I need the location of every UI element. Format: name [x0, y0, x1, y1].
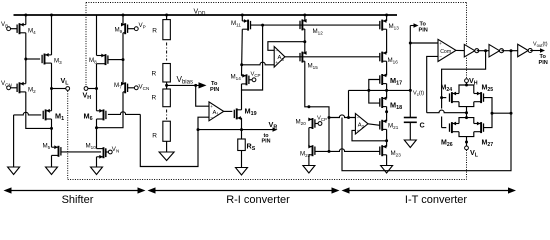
resistor RS — [238, 139, 246, 151]
resistor R (second) — [163, 64, 171, 83]
transistor M7 — [124, 82, 126, 93]
op-amp A2 — [355, 114, 368, 135]
input VB terminal — [7, 27, 11, 31]
section divider I-T span — [346, 190, 511, 192]
svg-text:+: + — [210, 104, 213, 109]
input VCN terminal right — [134, 86, 138, 90]
node Vbias tap — [165, 84, 168, 87]
node M25/M27 gate line joins — [491, 112, 494, 115]
transistor M3 — [44, 54, 46, 65]
node VR sense tap — [197, 128, 200, 131]
node M3 gate tap — [24, 58, 27, 61]
transistor M12 — [301, 19, 303, 30]
node A2 minus join — [347, 116, 350, 119]
Vc sense wire — [349, 89, 411, 91]
wire R2 to Vbias node — [166, 82, 168, 89]
wire M18 source to M21 — [386, 107, 388, 122]
Vth lower rail to M26/M27 drains — [459, 118, 474, 124]
bulk wire to VN terminal — [106, 151, 109, 153]
wire M3 gate — [26, 58, 40, 60]
wire Com output to inverter 1 — [456, 49, 464, 51]
comparator Com — [438, 39, 456, 61]
wire inverter1 to inverter2 — [477, 50, 489, 52]
wire M17 gate to Vc node — [369, 80, 380, 104]
svg-text:PIN: PIN — [262, 139, 271, 145]
inverter 2 — [489, 44, 500, 57]
wire Vbias to A1 plus input — [196, 85, 209, 106]
transistor M13 — [381, 20, 383, 31]
wire M1 source to M5 — [51, 119, 53, 147]
node M17 gate tie — [367, 89, 370, 92]
transistor M27 — [480, 122, 482, 133]
transistor M24 — [451, 92, 453, 103]
ground under M1 gate post — [8, 167, 20, 175]
svg-text:−: − — [210, 115, 213, 120]
input VCN terminal — [7, 86, 11, 90]
wire M5 source to ground — [51, 155, 53, 167]
terminal VL — [66, 87, 70, 91]
wire M2 source down and over to M5 drain — [26, 92, 52, 128]
svg-text:−: − — [275, 48, 278, 53]
wire M8 source to node VH and M6 — [96, 64, 98, 111]
node M24 gate tap — [440, 96, 443, 99]
svg-text:−: − — [357, 116, 360, 121]
node M20 drain corner — [307, 105, 310, 108]
wire M21 source to M23 — [386, 129, 388, 146]
svg-text:+: + — [439, 41, 442, 46]
wire Vc up to comparator plus — [409, 43, 411, 90]
transistor M16 — [381, 52, 383, 63]
terminal VCP of M20 — [318, 122, 322, 126]
arrow VR to pin — [242, 129, 274, 131]
svg-text:A1: A1 — [213, 110, 220, 117]
svg-text:A2: A2 — [358, 122, 365, 129]
node Vc at M17/M18 — [385, 89, 388, 92]
svg-text:VCP: VCP — [317, 116, 327, 123]
svg-text:VCP: VCP — [251, 72, 261, 79]
resistor R (top) — [163, 20, 171, 40]
wire M11/M12/M13 gate rail — [251, 24, 380, 26]
transistor M25 — [480, 92, 482, 103]
svg-text:R: R — [151, 71, 156, 78]
wire M15 source down to M20 — [305, 61, 309, 107]
transistor M2 — [19, 82, 21, 93]
wire M26 gate — [442, 127, 447, 129]
inverter 1 — [464, 44, 475, 57]
wire M24 source to tail — [459, 102, 467, 118]
dash continuation of R chain lower — [166, 110, 168, 120]
svg-text:R-I converter: R-I converter — [226, 194, 290, 206]
wire inverter2 tap to gate post — [492, 112, 511, 114]
transistor M19 — [236, 108, 238, 119]
ground under M22 — [303, 166, 315, 174]
wire M9 drain down to M7 — [122, 33, 124, 84]
wire rail to M3 — [51, 15, 53, 55]
node M18/M21 junction — [385, 110, 388, 113]
wire M20 bypass box to M22 gate rail — [309, 107, 329, 152]
gate stub M20 to VCP — [315, 123, 318, 125]
svg-text:−: − — [439, 54, 442, 59]
wire M14 source loop to M11 gate line — [242, 25, 263, 90]
wire rail to M12 — [304, 15, 306, 21]
gate wire joining M5 and M10 — [61, 151, 101, 153]
terminal VH — [84, 87, 88, 91]
wire M11 drain to M14 — [241, 29, 244, 75]
VDD power rail — [14, 14, 398, 16]
node tap after inverter 1 — [484, 49, 487, 52]
wire Vc down to capacitor — [409, 90, 411, 117]
section divider Shifter span — [9, 190, 139, 192]
wire VH to distribution rail — [466, 83, 468, 85]
ground under capacitor — [404, 140, 416, 148]
wire M23 source to ground — [386, 155, 388, 166]
wire Vc branch to A2 minus — [349, 90, 356, 117]
input VP terminal — [134, 27, 138, 31]
transistor M21 — [381, 120, 383, 131]
wire M10 source to ground — [96, 157, 98, 167]
node VL tail — [465, 141, 468, 144]
svg-text:PIN: PIN — [210, 87, 219, 93]
wire M9 gate to VP — [128, 28, 135, 30]
wire M8 gate — [108, 59, 123, 61]
svg-text:A3: A3 — [278, 55, 285, 62]
wire M24 gate — [442, 97, 447, 99]
svg-text:PIN: PIN — [419, 28, 428, 34]
node VL junction — [50, 87, 53, 90]
svg-text:R: R — [152, 28, 157, 35]
bulk bar of M10 — [105, 148, 107, 157]
svg-text:+: + — [357, 128, 360, 133]
transistor M4 — [19, 23, 21, 34]
wire M12 drain to node and M15 — [304, 29, 306, 53]
wire VR routing to M6 gate (down and around) — [140, 114, 198, 166]
VH distribution rail — [459, 85, 474, 93]
transistor M11 — [247, 20, 249, 31]
transistor M22 — [312, 145, 314, 156]
transistor M10 — [103, 147, 105, 158]
ground under R chain — [159, 152, 174, 161]
svg-text:R: R — [152, 132, 157, 139]
svg-text:Shifter: Shifter — [62, 194, 94, 206]
node VR junction — [240, 128, 243, 131]
capacitor C — [404, 117, 417, 119]
Vth wire capacitor side to M24/M25 tail with hop — [427, 110, 467, 113]
op-amp A1 — [209, 102, 224, 121]
ground under M23 — [381, 166, 393, 174]
transistor M8 — [105, 54, 107, 65]
wire A2 plus input from M21 source — [352, 130, 387, 140]
wire M22/M23 gate rail with hop — [315, 149, 380, 152]
wire inverter1 tap down to M24/M26 gates — [442, 51, 486, 109]
section divider R-I span — [152, 190, 334, 192]
transistor M23 — [381, 145, 383, 156]
wire M22 source to ground — [308, 155, 310, 166]
wire VL to terminal — [52, 88, 66, 90]
wire Vbias to pin arrow — [167, 84, 202, 86]
wire RS to ground — [241, 151, 243, 168]
ground under M5 — [46, 167, 58, 175]
wire M20 box to A2 minus with hop — [329, 115, 349, 118]
wire R chain to ground — [166, 141, 168, 152]
node M6/M7 source join — [95, 126, 98, 129]
wire A1 output to M19 gate — [224, 110, 233, 112]
transistor M5 — [58, 146, 60, 157]
gate stub M14 to VCP — [249, 79, 252, 81]
node Vth tail junction — [465, 111, 468, 114]
dash continuation of R chain upper — [166, 43, 168, 61]
terminal VH right — [465, 79, 469, 83]
node A3 plus tap — [240, 63, 243, 66]
transistor M17 — [381, 74, 383, 85]
wire rail to M11 — [241, 15, 243, 21]
node M1/M2 source join — [50, 127, 53, 130]
transistor M20 — [312, 118, 314, 129]
terminal VL right — [465, 146, 469, 150]
wire comparator plus input — [410, 42, 438, 44]
ground under RS — [236, 168, 248, 176]
node M11 gate tap — [261, 24, 264, 27]
wire M3 source to node VL and M1 drain — [51, 63, 53, 111]
wire VR rail — [198, 129, 242, 131]
wire VH terminal to mirror branch — [88, 88, 97, 90]
transistor M9 — [124, 23, 126, 34]
svg-text:C: C — [420, 121, 425, 130]
wire M26 source to VL tail — [459, 132, 467, 146]
wire rail to R chain — [166, 15, 168, 20]
wire M19 source to VR node — [241, 118, 243, 139]
wire and arrow To PIN top right — [409, 26, 411, 44]
node VH junction — [95, 87, 98, 90]
wire A2 output to M21 gate — [368, 124, 380, 126]
wire M7 source down and over to M10 drain — [97, 92, 124, 128]
wire M17 source to Vc junction — [386, 84, 388, 99]
wire rail to M4 — [25, 15, 27, 25]
transistor M26 — [451, 122, 453, 133]
wire capacitor to ground — [409, 122, 411, 140]
wire A3 minus feedback to M12 drain — [268, 42, 305, 51]
wire comparator minus from Vth — [427, 56, 438, 112]
wire M19 drain up to M14 loop — [241, 90, 243, 110]
wire inverter2 to inverter3 — [502, 50, 518, 52]
wire M13 to M16 — [386, 29, 388, 53]
wire M7 gate to VCN — [128, 87, 135, 89]
wire M1 gate from ground rail with hop — [14, 112, 42, 115]
node gate rail to M20 box — [328, 150, 331, 153]
transistor M15 — [301, 52, 303, 63]
ground under M10 — [91, 167, 103, 175]
dotted VH feedback net (top) — [86, 2, 467, 4]
transistor M6 — [103, 109, 105, 120]
inverter 3 — [518, 44, 529, 57]
node Vc to comparator tap — [409, 89, 412, 92]
wire M6 gate right with hop to VR sense — [108, 112, 140, 115]
wire VB to M4 gate — [11, 28, 18, 30]
wire rail to M13 — [386, 15, 388, 21]
wire to A3 plus input with hop — [242, 62, 275, 65]
resistor R (third) — [163, 89, 171, 107]
svg-text:Com: Com — [440, 49, 451, 55]
dotted VL feedback net (bottom) — [67, 91, 69, 180]
wire M4 drain down to M2 — [25, 33, 27, 84]
transistor M18 — [381, 97, 383, 108]
svg-text:Vout(t): Vout(t) — [533, 42, 548, 49]
wire A3 output to M15/M16 gate rail — [285, 56, 380, 58]
discharge return wire down and right — [342, 113, 511, 171]
transistor M14 — [246, 74, 248, 85]
svg-text:R: R — [151, 94, 156, 101]
wire M25 source to tail — [467, 102, 474, 107]
node comparator input tap — [409, 42, 412, 45]
terminal VCP of M14 — [252, 78, 256, 82]
svg-text:Vc(t): Vc(t) — [413, 91, 424, 98]
wire M27 source to VL tail — [467, 132, 474, 137]
node M20 box to A2 branch — [328, 116, 331, 119]
svg-text:I-T converter: I-T converter — [405, 194, 467, 206]
transistor M1 — [45, 109, 47, 120]
svg-text:PIN: PIN — [539, 60, 548, 66]
node tap after inverter 2 — [510, 49, 513, 52]
arrow Vout to pin — [530, 50, 541, 52]
wire M6 source to M10 — [96, 119, 98, 149]
wire inverter2 tap down to M25/M27 gate line — [510, 51, 512, 113]
resistor R (bottom) — [163, 121, 171, 141]
node M8 gate tap — [122, 58, 125, 61]
terminal VN — [108, 150, 112, 154]
wire rail to M9 — [122, 15, 124, 25]
wire VCN to M2 gate — [11, 87, 18, 89]
wire M20 source to M22 — [308, 128, 310, 147]
wire rail to M8 drain — [96, 15, 98, 55]
wire M16 to M17 — [386, 61, 388, 75]
wire M25 gate to inverter2 line — [484, 98, 493, 128]
node A2 plus feedback tap — [385, 139, 388, 142]
op-amp A3 — [274, 47, 285, 68]
wire A1 minus input from VR node — [198, 117, 209, 129]
node Vbias branch to A1 — [194, 84, 197, 87]
node M12 drain / A3 feedback — [303, 40, 306, 43]
wire ground post for M1 gate — [13, 115, 15, 167]
